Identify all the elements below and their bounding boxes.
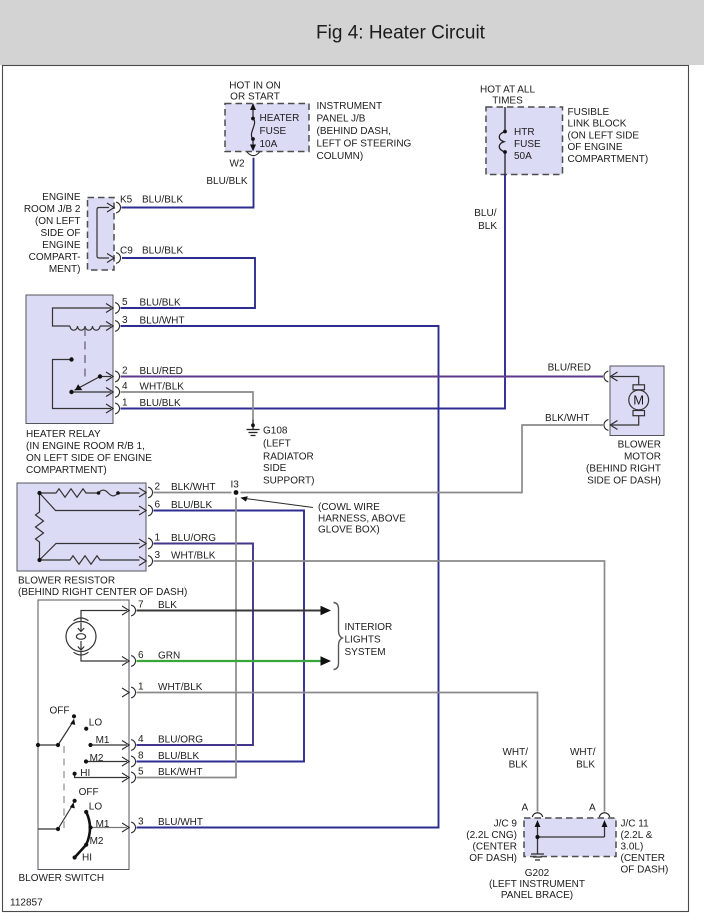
svg-text:BLU/BLK: BLU/BLK (171, 500, 212, 511)
svg-text:G108: G108 (263, 426, 288, 437)
svg-text:(2.2L &: (2.2L & (621, 830, 653, 841)
svg-text:OF DASH): OF DASH) (469, 853, 517, 864)
svg-text:112857: 112857 (10, 898, 43, 909)
svg-text:COMPART-: COMPART- (29, 252, 81, 263)
svg-text:(ON LEFT: (ON LEFT (35, 216, 81, 227)
svg-text:WHT/: WHT/ (570, 747, 596, 758)
svg-text:M1: M1 (96, 819, 110, 830)
svg-text:7: 7 (138, 600, 144, 611)
svg-text:LINK BLOCK: LINK BLOCK (568, 119, 627, 130)
svg-text:BLK/WHT: BLK/WHT (545, 413, 589, 424)
svg-text:GLOVE BOX): GLOVE BOX) (318, 525, 380, 536)
svg-text:(CENTER: (CENTER (473, 842, 517, 853)
svg-text:BLK: BLK (158, 600, 177, 611)
svg-text:(LEFT INSTRUMENT: (LEFT INSTRUMENT (489, 879, 585, 890)
svg-text:LO: LO (89, 718, 103, 729)
svg-text:(BEHIND RIGHT CENTER OF DASH): (BEHIND RIGHT CENTER OF DASH) (18, 587, 187, 598)
svg-text:WHT/BLK: WHT/BLK (171, 551, 216, 562)
svg-text:HEATER RELAY: HEATER RELAY (26, 429, 101, 440)
svg-text:PANEL J/B: PANEL J/B (317, 113, 366, 124)
svg-text:3: 3 (155, 550, 161, 561)
svg-text:BLU/WHT: BLU/WHT (158, 817, 203, 828)
svg-text:COLUMN): COLUMN) (317, 151, 364, 162)
svg-text:4: 4 (138, 734, 144, 745)
svg-text:BLU/ORG: BLU/ORG (171, 533, 216, 544)
svg-text:HARNESS, ABOVE: HARNESS, ABOVE (318, 513, 406, 524)
svg-text:(2.2L CNG): (2.2L CNG) (466, 830, 517, 841)
svg-text:BLOWER: BLOWER (618, 439, 661, 450)
svg-text:COMPARTMENT): COMPARTMENT) (568, 154, 649, 165)
svg-text:INTERIOR: INTERIOR (345, 622, 393, 633)
svg-text:MOTOR: MOTOR (624, 452, 661, 463)
svg-text:BLU/BLK: BLU/BLK (158, 751, 199, 762)
svg-text:HOT IN ON: HOT IN ON (229, 81, 280, 92)
svg-text:6: 6 (138, 650, 144, 661)
svg-text:OF ENGINE: OF ENGINE (568, 142, 623, 153)
svg-text:BLU/BLK: BLU/BLK (206, 176, 247, 187)
svg-text:HEATER: HEATER (260, 113, 300, 124)
svg-text:BLU/ORG: BLU/ORG (158, 735, 203, 746)
svg-text:1: 1 (155, 533, 161, 544)
svg-text:(ON LEFT SIDE: (ON LEFT SIDE (568, 130, 640, 141)
svg-text:BLOWER RESISTOR: BLOWER RESISTOR (18, 576, 115, 587)
svg-text:M2: M2 (90, 836, 104, 847)
svg-text:(CENTER: (CENTER (621, 853, 665, 864)
svg-text:BLK/WHT: BLK/WHT (171, 482, 215, 493)
svg-text:BLU/BLK: BLU/BLK (140, 298, 181, 309)
svg-text:GRN: GRN (158, 651, 180, 662)
svg-text:J/C 11: J/C 11 (621, 819, 650, 830)
svg-text:4: 4 (122, 381, 128, 392)
svg-text:M: M (633, 393, 644, 408)
svg-text:FUSE: FUSE (514, 139, 541, 150)
svg-text:LIGHTS: LIGHTS (345, 634, 381, 645)
svg-text:3: 3 (122, 315, 128, 326)
svg-text:PANEL BRACE): PANEL BRACE) (501, 890, 573, 901)
svg-text:HI: HI (82, 853, 92, 864)
svg-text:BLK: BLK (509, 760, 528, 771)
svg-text:I3: I3 (231, 480, 240, 491)
svg-text:SUPPORT): SUPPORT) (263, 476, 315, 487)
svg-text:OF DASH): OF DASH) (621, 865, 669, 876)
svg-text:ENGINE: ENGINE (42, 240, 81, 251)
svg-text:C9: C9 (120, 246, 133, 257)
svg-text:WHT/: WHT/ (502, 747, 528, 758)
svg-text:HTR: HTR (514, 127, 535, 138)
svg-text:OFF: OFF (79, 787, 99, 798)
svg-text:(BEHIND DASH,: (BEHIND DASH, (317, 126, 391, 137)
svg-text:6: 6 (155, 500, 161, 511)
svg-text:M2: M2 (90, 753, 104, 764)
svg-text:A: A (522, 802, 529, 813)
svg-text:5: 5 (122, 297, 128, 308)
svg-text:3.0L): 3.0L) (621, 842, 644, 853)
svg-text:BLU/BLK: BLU/BLK (140, 398, 181, 409)
svg-text:BLU/WHT: BLU/WHT (140, 316, 185, 327)
svg-text:BLK: BLK (576, 760, 595, 771)
svg-text:1: 1 (122, 398, 128, 409)
svg-text:RADIATOR: RADIATOR (263, 452, 314, 463)
svg-text:OFF: OFF (50, 706, 70, 717)
svg-text:ENGINE: ENGINE (42, 192, 81, 203)
svg-text:3: 3 (138, 817, 144, 828)
svg-text:K5: K5 (120, 195, 133, 206)
svg-text:1: 1 (138, 682, 144, 693)
svg-text:HOT AT ALL: HOT AT ALL (480, 85, 535, 96)
svg-text:(IN ENGINE ROOM R/B 1,: (IN ENGINE ROOM R/B 1, (26, 441, 145, 452)
svg-text:SYSTEM: SYSTEM (345, 647, 386, 658)
svg-text:2: 2 (122, 366, 128, 377)
svg-text:SIDE OF DASH): SIDE OF DASH) (587, 475, 661, 486)
svg-text:BLK/WHT: BLK/WHT (158, 767, 202, 778)
svg-text:FUSE: FUSE (260, 126, 287, 137)
svg-text:BLK: BLK (478, 221, 497, 232)
svg-text:(LEFT: (LEFT (263, 439, 291, 450)
svg-text:5: 5 (138, 767, 144, 778)
svg-text:INSTRUMENT: INSTRUMENT (317, 101, 383, 112)
svg-text:MENT): MENT) (49, 264, 81, 275)
svg-text:BLU/RED: BLU/RED (140, 366, 183, 377)
svg-text:BLOWER SWITCH: BLOWER SWITCH (19, 873, 105, 884)
svg-text:G202: G202 (525, 868, 550, 879)
svg-text:ROOM J/B 2: ROOM J/B 2 (24, 204, 81, 215)
svg-text:HI: HI (80, 768, 90, 779)
svg-text:LEFT OF STEERING: LEFT OF STEERING (317, 138, 412, 149)
svg-text:BLU/RED: BLU/RED (548, 362, 591, 373)
svg-text:W2: W2 (230, 159, 245, 170)
svg-text:WHT/BLK: WHT/BLK (158, 682, 203, 693)
svg-text:(COWL WIRE: (COWL WIRE (318, 502, 380, 513)
svg-text:Fig 4: Heater Circuit: Fig 4: Heater Circuit (316, 23, 486, 44)
svg-text:FUSIBLE: FUSIBLE (568, 107, 610, 118)
svg-text:SIDE OF: SIDE OF (40, 228, 80, 239)
svg-text:M1: M1 (96, 735, 110, 746)
svg-text:J/C 9: J/C 9 (494, 819, 518, 830)
svg-text:50A: 50A (514, 151, 532, 162)
svg-text:SIDE: SIDE (263, 463, 287, 474)
svg-text:BLU/BLK: BLU/BLK (142, 246, 183, 257)
svg-text:TIMES: TIMES (492, 96, 523, 107)
svg-text:8: 8 (138, 751, 144, 762)
svg-text:ON LEFT SIDE OF ENGINE: ON LEFT SIDE OF ENGINE (26, 453, 152, 464)
svg-text:BLU/BLK: BLU/BLK (142, 195, 183, 206)
svg-text:BLU/: BLU/ (474, 208, 496, 219)
svg-text:10A: 10A (260, 139, 278, 150)
svg-text:(BEHIND RIGHT: (BEHIND RIGHT (586, 463, 661, 474)
svg-text:WHT/BLK: WHT/BLK (140, 382, 185, 393)
svg-text:A: A (589, 802, 596, 813)
svg-text:COMPARTMENT): COMPARTMENT) (26, 465, 107, 476)
svg-text:LO: LO (89, 802, 103, 813)
svg-text:2: 2 (155, 482, 161, 493)
svg-text:OR START: OR START (230, 92, 280, 103)
